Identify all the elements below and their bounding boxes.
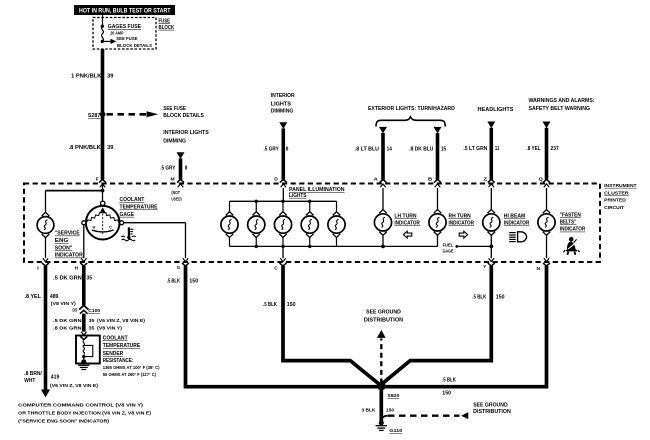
svg-text:.8 DK BLU: .8 DK BLU — [409, 146, 433, 152]
wire .5 BLK 150 (G) — [186, 266, 378, 387]
svg-text:BLOCK: BLOCK — [159, 25, 175, 31]
svg-text:DISTRIBUTION: DISTRIBUTION — [473, 409, 511, 415]
wire lamp to I — [45, 238, 47, 258]
svg-text:HEADLIGHTS: HEADLIGHTS — [478, 107, 514, 113]
svg-text:ENG: ENG — [55, 238, 69, 244]
wire bus to C — [282, 246, 284, 258]
svg-text:C100: C100 — [88, 308, 100, 314]
svg-text:INDICATOR: INDICATOR — [449, 221, 475, 227]
svg-text:COOLANT: COOLANT — [103, 335, 128, 341]
svg-text:HOT IN RUN, BULB TEST OR START: HOT IN RUN, BULB TEST OR START — [79, 8, 171, 15]
svg-text:35: 35 — [89, 326, 95, 332]
svg-text:419: 419 — [51, 375, 60, 381]
not used note — [171, 190, 182, 202]
svg-text:SEE FUSE: SEE FUSE — [116, 36, 138, 42]
service eng soon label — [55, 231, 83, 259]
svg-text:.5 GRY: .5 GRY — [264, 147, 280, 153]
svg-text:(V8 VIN Y): (V8 VIN Y) — [51, 301, 76, 307]
connector Q (top) — [539, 176, 550, 187]
connector C (bottom) — [274, 258, 286, 270]
svg-text:237: 237 — [551, 146, 559, 152]
svg-text:G110: G110 — [389, 428, 402, 434]
connector G (bottom) — [177, 258, 189, 270]
svg-text:BELTS": BELTS" — [560, 219, 577, 225]
svg-text:USED): USED) — [171, 197, 182, 202]
connector M (top) — [171, 176, 185, 187]
svg-text:.8 PNK/BLK: .8 PNK/BLK — [69, 145, 102, 151]
svg-text:55 OHMS AT 260° F (127° C): 55 OHMS AT 260° F (127° C) — [103, 372, 157, 377]
label instrument cluster printed circuit — [604, 183, 636, 211]
panel lamp 4 — [301, 212, 318, 238]
svg-text:INDICATOR: INDICATOR — [55, 253, 83, 259]
svg-text:OR THROTTLE BODY INJECTION (V6: OR THROTTLE BODY INJECTION (V6 VIN Z, V8… — [18, 410, 151, 416]
sender resistor — [81, 341, 93, 365]
label FUSE BLOCK — [159, 18, 175, 31]
panel lamp 2 — [248, 212, 265, 238]
svg-text:GAGE: GAGE — [120, 212, 135, 218]
svg-text:LIGHTS: LIGHTS — [271, 101, 291, 107]
dashed arrow see fuse block details — [107, 111, 159, 117]
svg-text:INDICATOR: INDICATOR — [504, 221, 530, 227]
connector F (top) — [96, 176, 106, 187]
svg-text:BLOCK DETAILS: BLOCK DETAILS — [163, 113, 204, 119]
wire gauge right terminal to G — [124, 223, 186, 259]
connector Z (top) — [484, 176, 495, 187]
svg-text:Z: Z — [484, 176, 488, 181]
svg-text:.5 BLK: .5 BLK — [442, 378, 456, 384]
svg-text:FUSE: FUSE — [159, 18, 171, 24]
svg-text:DIMMING: DIMMING — [271, 108, 294, 114]
svg-text:INSTRUMENT: INSTRUMENT — [604, 183, 636, 189]
svg-text:35: 35 — [86, 275, 92, 281]
svg-text:.5 GRY: .5 GRY — [160, 165, 176, 171]
hi beam indicator lamp — [490, 188, 492, 210]
connector Y (bottom) — [483, 258, 495, 269]
svg-text:(V6 VIN Z, V8 VIN E): (V6 VIN Z, V8 VIN E) — [50, 383, 98, 389]
fuse block dashed box — [93, 18, 156, 50]
left turn arrow icon — [403, 231, 411, 238]
svg-text:DIMMING: DIMMING — [163, 138, 186, 144]
wire .5 BLK 150 (N) — [385, 266, 546, 387]
svg-text:SENDER: SENDER — [103, 351, 124, 357]
svg-text:489: 489 — [50, 294, 59, 300]
svg-text:GAGES FUSE: GAGES FUSE — [108, 24, 141, 30]
svg-text:H: H — [93, 225, 96, 230]
wire .8 DK BLU 15 (B) — [409, 127, 446, 180]
svg-text:PRINTED: PRINTED — [604, 198, 626, 204]
wire F to junction — [46, 184, 105, 213]
svg-text:.5 DK GRN: .5 DK GRN — [53, 318, 82, 324]
svg-text:1365 OHMS AT 100° F (38° C): 1365 OHMS AT 100° F (38° C) — [103, 365, 160, 370]
power banner HOT IN RUN, BULB TEST OR START — [74, 5, 175, 15]
see fuse arrow — [103, 39, 117, 44]
svg-text:INTERIOR: INTERIOR — [271, 93, 296, 99]
service eng soon indicator lamp — [37, 212, 54, 237]
computer command control note — [18, 402, 151, 424]
ground G110 — [376, 420, 403, 434]
sender ground — [78, 365, 89, 369]
svg-text:(V6 VIN Z, V8 VIN E): (V6 VIN Z, V8 VIN E) — [97, 318, 145, 324]
svg-text:BLOCK DETAILS: BLOCK DETAILS — [117, 43, 153, 49]
svg-text:INTERIOR LIGHTS: INTERIOR LIGHTS — [163, 130, 209, 136]
RH turn indicator lamp — [437, 188, 439, 210]
svg-text:8: 8 — [286, 147, 289, 153]
panel lamp 1 — [221, 212, 238, 238]
svg-text:INDICATOR: INDICATOR — [394, 221, 420, 227]
wire .5 BLK 150 (C) — [283, 266, 381, 386]
gages fuse symbol — [101, 15, 104, 43]
svg-text:Y: Y — [483, 264, 486, 269]
svg-text:RESISTANCE:: RESISTANCE: — [103, 358, 134, 364]
svg-text:CLUSTER: CLUSTER — [604, 190, 629, 196]
svg-text:I: I — [37, 265, 39, 270]
seat belt icon — [563, 237, 579, 255]
svg-text:11: 11 — [495, 146, 499, 152]
svg-text:EXTERIOR LIGHTS: TURN/HAZARD: EXTERIOR LIGHTS: TURN/HAZARD — [368, 106, 455, 112]
svg-text:.8 YEL: .8 YEL — [25, 294, 42, 300]
svg-text:WARNINGS AND ALARMS:: WARNINGS AND ALARMS: — [529, 98, 595, 104]
svg-text:SAFETY BELT WARNING: SAFETY BELT WARNING — [529, 106, 591, 112]
wire .5 LT GRN 11 (Z) — [463, 122, 499, 180]
svg-text:Q: Q — [539, 176, 544, 181]
svg-text:COMPUTER COMMAND CONTROL (V8 V: COMPUTER COMMAND CONTROL (V8 VIN Y) — [18, 402, 143, 408]
wire 1 PNK/BLK 39 — [101, 49, 105, 180]
svg-text:150: 150 — [386, 408, 394, 414]
svg-text:CIRCUIT: CIRCUIT — [604, 205, 624, 211]
svg-text:GAGE: GAGE — [443, 249, 454, 254]
svg-text:39: 39 — [107, 74, 114, 80]
svg-text:SEE GROUND: SEE GROUND — [473, 403, 508, 409]
wire .5 BLK 150 (Y) — [382, 266, 492, 384]
svg-text:35: 35 — [89, 318, 95, 324]
svg-text:.8 DK GRN: .8 DK GRN — [53, 326, 82, 332]
bottom bus — [230, 245, 438, 249]
fuel gage stub — [443, 242, 494, 253]
wire .5 DK GRN 35 (H) — [82, 266, 86, 305]
connector D (top) — [274, 176, 287, 187]
svg-text:.8 LT BLU: .8 LT BLU — [355, 146, 379, 152]
wire .8 YEL 489 (I) — [44, 266, 48, 390]
interior lights dimming label (M) — [163, 130, 209, 144]
gage needle and windings — [87, 207, 119, 234]
svg-text:WHT: WHT — [24, 378, 35, 384]
connector N (bottom) — [537, 258, 551, 271]
wire .5 GRY 8 (M) — [160, 152, 187, 179]
svg-text:39: 39 — [107, 145, 114, 151]
svg-text:SEE FUSE: SEE FUSE — [163, 106, 186, 112]
svg-text:8: 8 — [185, 165, 188, 171]
panel illumination lights label — [289, 187, 345, 199]
svg-text:COOLANT: COOLANT — [120, 197, 146, 203]
svg-text:LH TURN: LH TURN — [394, 213, 417, 219]
svg-text:"FASTEN: "FASTEN — [560, 212, 581, 218]
dashed arrow see ground distribution (right) — [381, 412, 468, 420]
wire .8 LT BLU 14 (A) — [355, 127, 392, 180]
svg-text:(NOT: (NOT — [171, 190, 180, 195]
wire 3 BLK 150 to G110 — [379, 390, 383, 421]
svg-text:TEMPERATURE: TEMPERATURE — [103, 343, 141, 349]
dashed arrow see ground distribution (up) — [377, 330, 386, 384]
svg-text:3 BLK: 3 BLK — [362, 408, 376, 414]
interior lights dimming label (D) — [271, 93, 296, 115]
svg-text:G: G — [177, 265, 181, 270]
svg-text:150: 150 — [496, 294, 505, 300]
svg-text:14: 14 — [387, 146, 392, 152]
wire .5 GRY 8 (D) — [264, 122, 289, 179]
coolant temperature gage label — [120, 197, 159, 218]
svg-text:LIGHTS: LIGHTS — [289, 193, 307, 199]
sender labels — [103, 335, 160, 377]
svg-text:.5 LT GRN: .5 LT GRN — [463, 146, 487, 152]
instrument cluster dashed box — [24, 184, 600, 263]
connector B (top) — [428, 176, 441, 187]
svg-text:.5 BLK: .5 BLK — [263, 302, 277, 308]
svg-text:150: 150 — [442, 390, 451, 396]
svg-text:(V8 VIN Y): (V8 VIN Y) — [97, 326, 122, 332]
svg-text:15: 15 — [441, 146, 446, 152]
svg-text:SEE GROUND: SEE GROUND — [366, 310, 401, 316]
LH turn indicator lamp — [382, 188, 384, 210]
svg-text:TEMPERATURE: TEMPERATURE — [120, 205, 159, 211]
coolant temp icon — [121, 227, 135, 240]
svg-text:D5: D5 — [72, 307, 77, 313]
svg-text:.5 BLK: .5 BLK — [167, 279, 180, 285]
svg-text:M: M — [171, 176, 175, 181]
connector H (bottom) — [75, 258, 88, 270]
splice S820 — [377, 382, 400, 399]
svg-text:.5 BLK: .5 BLK — [472, 294, 486, 300]
svg-text:20 AMP: 20 AMP — [110, 30, 124, 36]
svg-text:RH TURN: RH TURN — [449, 213, 472, 219]
svg-text:F: F — [96, 176, 99, 181]
wire D to top bus — [230, 188, 337, 203]
svg-text:.8 YEL: .8 YEL — [526, 146, 541, 152]
svg-text:SOON": SOON" — [55, 245, 73, 251]
svg-text:("SERVICE ENG SOON" INDICATOR): ("SERVICE ENG SOON" INDICATOR) — [18, 418, 109, 424]
svg-text:S820: S820 — [387, 393, 399, 399]
splice S287 — [88, 112, 105, 120]
warnings and alarms label (Q) — [529, 98, 595, 112]
svg-text:.8 BRN/: .8 BRN/ — [24, 371, 42, 377]
svg-text:DISTRIBUTION: DISTRIBUTION — [364, 318, 403, 324]
connector C100 — [72, 306, 100, 315]
hi beam icon — [509, 232, 527, 242]
svg-text:"SERVICE: "SERVICE — [55, 231, 80, 237]
svg-text:1 PNK/BLK: 1 PNK/BLK — [71, 74, 102, 80]
svg-text:150: 150 — [287, 302, 296, 308]
right turn arrow icon — [459, 231, 467, 238]
connector I (bottom) — [37, 258, 49, 270]
svg-text:INDICATOR: INDICATOR — [560, 227, 586, 233]
fuse labels — [108, 24, 153, 49]
svg-text:S287: S287 — [88, 113, 101, 119]
wire .8 YEL 237 (Q) — [526, 122, 558, 180]
wire .8 PNK/BLK 39 — [69, 145, 114, 151]
svg-text:150: 150 — [189, 279, 198, 285]
coolant temperature sender — [80, 332, 87, 340]
svg-text:HI BEAM: HI BEAM — [504, 213, 526, 219]
fasten belts indicator lamp — [546, 188, 548, 210]
svg-text:.5 DK GRN: .5 DK GRN — [53, 275, 82, 281]
wire gauge left terminal to H — [83, 225, 85, 259]
connector A (top) — [374, 176, 387, 187]
svg-text:C: C — [109, 225, 112, 230]
panel lamp 3 — [274, 212, 291, 238]
svg-text:FUEL: FUEL — [443, 242, 454, 247]
coolant temperature gage — [82, 191, 124, 240]
panel lamp 5 — [328, 212, 345, 238]
